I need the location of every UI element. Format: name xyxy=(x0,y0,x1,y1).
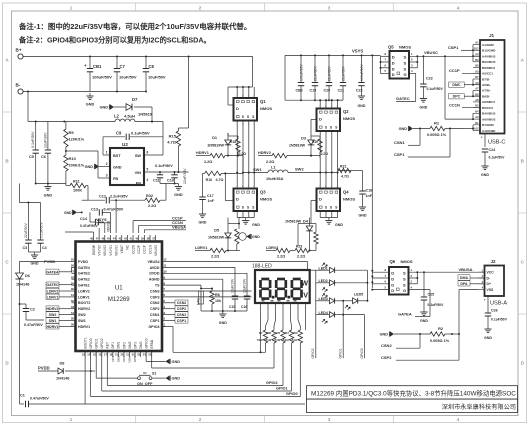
svg-text:-: - xyxy=(282,306,283,309)
net labels dp dm rotated xyxy=(111,356,137,363)
svg-text:1nF: 1nF xyxy=(366,194,373,198)
svg-text:0.1uF/50V: 0.1uF/50V xyxy=(428,303,445,307)
svg-text:10: 10 xyxy=(164,270,168,274)
svg-text:D: D xyxy=(319,197,322,202)
svg-text:2.2Ω: 2.2Ω xyxy=(321,152,329,156)
op-amp U2 regulator xyxy=(106,142,149,185)
svg-text:DP1: DP1 xyxy=(111,342,115,349)
svg-text:2.2uF/35V: 2.2uF/35V xyxy=(110,195,128,199)
svg-text:B9/VBUS: B9/VBUS xyxy=(482,60,495,64)
svg-text:DP2: DP2 xyxy=(111,356,115,362)
svg-text:B-: B- xyxy=(16,83,21,88)
net label CSN3 xyxy=(166,290,252,292)
net label LDRV2 xyxy=(46,288,72,293)
svg-text:26: 26 xyxy=(71,264,75,268)
net label CSN2 j2 xyxy=(381,334,420,348)
wire led bus left gpio2 stub xyxy=(311,270,316,358)
svg-text:R9: R9 xyxy=(69,130,75,135)
switch S1 xyxy=(96,351,165,386)
svg-text:1: 1 xyxy=(106,151,108,155)
capacitor C9 xyxy=(103,131,163,141)
wire led right bus xyxy=(366,270,368,301)
net label CSN2 u1 xyxy=(166,300,188,305)
svg-text:A7/D+: A7/D+ xyxy=(482,89,491,93)
ground under C18 xyxy=(359,204,367,218)
net label CSP3 xyxy=(166,296,252,298)
gnd arrow R1 xyxy=(399,126,413,131)
svg-text:USB-A: USB-A xyxy=(490,301,507,307)
gnd arrow s1 xyxy=(166,376,181,381)
svg-text:B12: B12 xyxy=(474,47,479,50)
resistor R6 xyxy=(265,310,276,347)
svg-text:VBUSC: VBUSC xyxy=(424,50,438,55)
svg-text:2.2Ω: 2.2Ω xyxy=(266,160,274,164)
svg-text:TS: TS xyxy=(155,284,160,288)
svg-text:SW1: SW1 xyxy=(49,319,57,323)
capacitor C2 xyxy=(20,304,45,327)
svg-text:S: S xyxy=(403,282,406,287)
U2 pin2 ground arrow xyxy=(85,164,110,169)
svg-text:BST: BST xyxy=(113,154,121,158)
net label DMA xyxy=(458,275,485,280)
resistor R15 xyxy=(167,128,180,172)
svg-text:GND: GND xyxy=(252,235,260,239)
svg-text:CB1: CB1 xyxy=(93,64,102,69)
led LED5 xyxy=(343,293,368,310)
resistor R2 xyxy=(430,326,459,343)
wire Q2 gate stub xyxy=(311,119,317,121)
svg-text:GND: GND xyxy=(31,262,39,266)
svg-text:DPA: DPA xyxy=(460,282,468,286)
svg-text:D6: D6 xyxy=(25,274,30,278)
svg-text:DP2: DP2 xyxy=(122,342,126,349)
svg-text:W: W xyxy=(301,281,308,288)
svg-text:D: D xyxy=(236,106,239,111)
svg-text:GND: GND xyxy=(419,106,427,110)
wire U1 top vsys2 xyxy=(98,228,100,235)
wire DVDD xyxy=(166,273,247,294)
svg-text:A12/GND: A12/GND xyxy=(482,129,496,133)
svg-text:L1: L1 xyxy=(271,166,275,170)
svg-text:LDRV1: LDRV1 xyxy=(47,295,59,299)
capacitor C5 xyxy=(29,122,39,184)
svg-text:C18: C18 xyxy=(366,189,373,193)
svg-text:3: 3 xyxy=(328,417,331,422)
svg-text:0.1uF/50V: 0.1uF/50V xyxy=(155,164,173,168)
svg-text:AVDD: AVDD xyxy=(150,266,160,270)
wire Q3 bottom pins xyxy=(237,211,254,218)
svg-text:USB-C: USB-C xyxy=(488,140,505,146)
svg-text:VCC: VCC xyxy=(487,271,495,275)
svg-text:GATE4: GATE4 xyxy=(78,266,90,270)
net label CSP1 u1 xyxy=(166,318,188,323)
capacitor C23 xyxy=(420,56,443,95)
svg-text:10k: 10k xyxy=(215,299,221,303)
capacitor C17 left xyxy=(199,173,214,211)
svg-text:22uF/35V: 22uF/35V xyxy=(183,168,187,184)
resistor R5 xyxy=(274,310,285,347)
svg-text:22uF/30V: 22uF/30V xyxy=(43,132,47,148)
svg-text:C3: C3 xyxy=(23,246,28,250)
svg-text:D7: D7 xyxy=(132,97,138,102)
diode D5 xyxy=(208,218,231,252)
svg-text:HDRV1: HDRV1 xyxy=(46,325,58,329)
wire cap rail to Q2 xyxy=(338,99,343,101)
svg-text:D: D xyxy=(391,277,394,282)
svg-text:B12/GND: B12/GND xyxy=(482,49,496,53)
transistor Q6 xyxy=(389,259,413,295)
wire led3 row xyxy=(337,300,344,302)
net label CSP1 top xyxy=(448,45,474,62)
net label VBUS3 rotated xyxy=(106,221,110,232)
svg-text:R20: R20 xyxy=(312,140,318,144)
svg-text:VBUS1: VBUS1 xyxy=(114,245,118,256)
resistor R19 HDRV2 xyxy=(258,151,320,164)
resistor R22 LDRV2 xyxy=(266,246,295,259)
svg-text:J2: J2 xyxy=(491,259,497,264)
resistor R23 xyxy=(295,224,318,259)
svg-text:C6: C6 xyxy=(41,155,46,159)
svg-text:GND: GND xyxy=(481,173,489,177)
net label HDRV1 xyxy=(46,324,72,329)
svg-text:GATEC: GATEC xyxy=(46,283,59,287)
diode D4 lower xyxy=(285,218,313,252)
svg-text:NMOS: NMOS xyxy=(343,197,355,202)
wire B+ drop to Q1 xyxy=(228,57,253,88)
net label GPIO1 text xyxy=(276,387,288,391)
svg-text:2: 2 xyxy=(106,162,108,166)
wire led34 bus gpio1 stub xyxy=(339,301,344,359)
wire cap gnd rail xyxy=(160,183,178,185)
svg-text:Q6: Q6 xyxy=(390,259,396,264)
resistor R4 xyxy=(283,310,294,347)
svg-text:BOOT1: BOOT1 xyxy=(83,337,87,348)
svg-text:1: 1 xyxy=(70,5,73,10)
wire B- rail xyxy=(23,91,147,93)
svg-text:5: 5 xyxy=(147,168,149,172)
svg-text:DM2: DM2 xyxy=(116,356,120,362)
svg-text:28: 28 xyxy=(71,275,75,279)
svg-text:B6/D-: B6/D- xyxy=(482,94,490,98)
wire TS xyxy=(166,285,201,288)
svg-text:DP3: DP3 xyxy=(133,342,137,349)
wire gpio4 run xyxy=(162,326,266,352)
svg-text:CSP1: CSP1 xyxy=(150,319,159,323)
led LED4 xyxy=(316,311,337,324)
connector J1 USB-C xyxy=(473,33,505,134)
wire Q6 left pins xyxy=(371,268,389,291)
svg-text:B5/CC2: B5/CC2 xyxy=(482,106,493,110)
svg-text:B7/D-: B7/D- xyxy=(482,77,490,81)
capacitor C1 xyxy=(20,394,50,408)
svg-text:3: 3 xyxy=(328,5,331,10)
net label CSN1 xyxy=(394,129,420,146)
svg-text:D: D xyxy=(236,197,239,202)
wire VBAT rail y121 xyxy=(28,121,163,123)
svg-text:C15: C15 xyxy=(229,305,235,309)
resistor R17 LDRV1 xyxy=(195,246,240,259)
wire VIN xyxy=(144,164,189,173)
svg-text:S: S xyxy=(404,66,407,71)
ground under C6 xyxy=(44,184,53,198)
svg-text:J1: J1 xyxy=(489,33,495,38)
svg-text:PVDD: PVDD xyxy=(78,260,88,264)
svg-text:C12: C12 xyxy=(99,195,106,199)
capacitor C15 xyxy=(229,278,238,311)
ground under Q3 xyxy=(242,218,260,228)
svg-text:D: D xyxy=(392,61,395,66)
wire gpio1 long xyxy=(102,346,292,391)
wire Q1 bottom pins to SW1 xyxy=(236,121,255,173)
svg-text:GPIO1: GPIO1 xyxy=(276,387,288,391)
diode D7 xyxy=(100,97,153,123)
svg-text:VSS: VSS xyxy=(487,288,495,292)
svg-text:51Ω: 51Ω xyxy=(265,338,271,342)
wire cap bank bottom rail xyxy=(285,55,343,101)
svg-text:CSN2: CSN2 xyxy=(381,343,392,348)
svg-text:D: D xyxy=(392,72,395,77)
svg-text:120K/1%: 120K/1% xyxy=(69,138,85,142)
svg-text:1N5819W: 1N5819W xyxy=(208,236,225,240)
svg-text:GND: GND xyxy=(113,166,122,170)
svg-text:2.2Ω: 2.2Ω xyxy=(297,255,305,259)
svg-text:A6/D+: A6/D+ xyxy=(482,83,491,87)
led LED1 xyxy=(316,263,337,273)
svg-text:R23: R23 xyxy=(296,245,302,249)
svg-text:GND: GND xyxy=(86,103,95,107)
resistor R21 xyxy=(338,165,363,179)
svg-text:2: 2 xyxy=(199,5,202,10)
wire r6 run xyxy=(152,346,274,368)
wire gpio0 long xyxy=(91,346,301,397)
svg-text:HDRV2: HDRV2 xyxy=(78,307,90,311)
svg-text:1N5819: 1N5819 xyxy=(138,112,153,117)
svg-text:CSP3: CSP3 xyxy=(150,295,159,299)
resistor R20 xyxy=(311,136,328,158)
wire gpio2 long xyxy=(107,346,283,386)
svg-text:GND: GND xyxy=(64,211,72,215)
svg-text:CSP2: CSP2 xyxy=(177,307,186,311)
svg-text:51Ω: 51Ω xyxy=(292,338,298,342)
svg-text:-: - xyxy=(260,306,261,309)
svg-text:R32: R32 xyxy=(146,194,153,198)
svg-text:GND: GND xyxy=(100,106,109,110)
svg-text:C11: C11 xyxy=(153,179,160,183)
svg-text:备注-2：GPIO4和GPIO3分别可以复用为I2C的SCL: 备注-2：GPIO4和GPIO3分别可以复用为I2C的SCL和SDA。 xyxy=(18,36,211,45)
ground under C3 C4 xyxy=(28,252,40,266)
svg-text:NMOS: NMOS xyxy=(260,106,272,111)
wire key gnd row xyxy=(146,351,165,361)
wire Q6 gate xyxy=(409,290,431,317)
gnd arrow R2 xyxy=(380,331,430,336)
svg-text:C13: C13 xyxy=(91,208,98,212)
svg-text:DPA: DPA xyxy=(122,356,126,362)
svg-text:CSP2: CSP2 xyxy=(381,355,392,360)
svg-text:51Ω: 51Ω xyxy=(257,338,263,342)
svg-text:10uH/36A: 10uH/36A xyxy=(266,177,284,181)
title block xyxy=(307,386,518,413)
capacitor CB2 xyxy=(296,55,305,100)
net label GPIO2 text xyxy=(266,381,278,385)
wire AGND xyxy=(166,279,223,288)
svg-text:NC: NC xyxy=(126,244,130,249)
svg-text:C24: C24 xyxy=(489,148,496,152)
svg-text:GND: GND xyxy=(484,336,492,340)
svg-text:D3: D3 xyxy=(301,137,306,141)
svg-text:NMOS: NMOS xyxy=(401,259,413,264)
svg-text:VBUS2: VBUS2 xyxy=(103,245,107,256)
svg-text:CSN1: CSN1 xyxy=(177,313,187,317)
svg-text:EPAD: EPAD xyxy=(150,339,154,348)
wire c3c4 top xyxy=(20,184,41,204)
svg-text:D+: D+ xyxy=(487,282,491,286)
ground under C23 xyxy=(419,96,427,110)
svg-text:A1/GND: A1/GND xyxy=(482,43,494,47)
svg-text:4: 4 xyxy=(457,5,460,10)
resistor R18b with bjt circle xyxy=(228,218,260,251)
svg-text:G: G xyxy=(403,288,406,293)
thermistor NTC xyxy=(196,291,203,311)
svg-text:C2: C2 xyxy=(30,308,35,312)
ground under CB1 xyxy=(86,93,95,107)
svg-text:DM3: DM3 xyxy=(139,341,143,348)
wire J2 bottom stub xyxy=(484,296,488,306)
svg-text:0.1uF/50V: 0.1uF/50V xyxy=(131,131,150,136)
svg-text:深圳市永阜康科技有限公司: 深圳市永阜康科技有限公司 xyxy=(442,403,516,411)
svg-text:-: - xyxy=(267,306,268,309)
display 188-LED label xyxy=(252,264,272,270)
svg-text:GPIO2: GPIO2 xyxy=(311,348,315,358)
led LED3 xyxy=(316,294,337,304)
svg-text:KEY: KEY xyxy=(106,341,110,348)
svg-text:VIN: VIN xyxy=(135,171,142,175)
svg-text:R11: R11 xyxy=(73,180,80,184)
svg-text:GND: GND xyxy=(380,333,389,337)
capacitor C16 xyxy=(241,278,250,311)
svg-text:GATE3: GATE3 xyxy=(78,272,90,276)
ground under C10 xyxy=(174,184,183,198)
ground under Q4 xyxy=(325,218,343,228)
net label DMC xyxy=(449,79,480,87)
svg-text:D: D xyxy=(391,282,394,287)
svg-text:SW1: SW1 xyxy=(253,167,262,172)
svg-text:C5: C5 xyxy=(29,155,34,159)
gnd arrow key xyxy=(166,359,181,364)
svg-text:GND: GND xyxy=(359,214,367,218)
svg-text:SW1: SW1 xyxy=(78,319,86,323)
note line 2 xyxy=(18,36,211,45)
svg-text:U1: U1 xyxy=(115,286,123,292)
wire vbus3 branch down xyxy=(115,200,117,233)
svg-text:VBUS4: VBUS4 xyxy=(148,260,160,264)
wire VBUSC branch to VBUS pins xyxy=(445,56,474,120)
svg-text:1: 1 xyxy=(70,417,73,422)
wire Q2 top pins xyxy=(319,99,339,108)
terminal B- xyxy=(16,83,24,95)
resistor R10 xyxy=(64,147,85,171)
wire disp stub7 xyxy=(305,310,307,331)
svg-text:SW2: SW2 xyxy=(78,313,86,317)
net label VBUSC xyxy=(422,50,479,57)
net label VSYS xyxy=(352,49,363,54)
svg-text:GND: GND xyxy=(199,221,207,225)
diode D1 xyxy=(207,133,231,157)
capacitor C21 xyxy=(338,55,347,100)
svg-text:GND: GND xyxy=(219,321,227,325)
capacitor C25 xyxy=(421,271,444,309)
svg-text:NMOS: NMOS xyxy=(399,45,411,50)
svg-text:R6: R6 xyxy=(267,331,271,335)
svg-text:-: - xyxy=(275,306,276,309)
svg-text:D1: D1 xyxy=(212,136,217,140)
svg-text:0.1uF/50V: 0.1uF/50V xyxy=(427,87,444,91)
svg-text:22uF/35V: 22uF/35V xyxy=(314,66,318,81)
svg-text:CSN3: CSN3 xyxy=(150,289,160,293)
svg-text:SW2: SW2 xyxy=(49,313,57,317)
transistor Q5 xyxy=(388,45,411,79)
net label LDRV1 xyxy=(46,294,72,299)
net label PVDD at U1 xyxy=(44,259,72,264)
capacitor C4 xyxy=(37,203,46,253)
capacitor C19 xyxy=(310,55,319,100)
net label DPA xyxy=(458,281,485,286)
svg-text:CC1N: CC1N xyxy=(148,244,152,254)
svg-text:GND: GND xyxy=(85,165,94,169)
wire Q1 top pins xyxy=(236,86,255,98)
svg-text:51Ω: 51Ω xyxy=(283,338,289,342)
resistor R18 xyxy=(228,133,246,156)
wire Q2 bottom pins to SW2 xyxy=(320,131,337,173)
svg-text:S: S xyxy=(403,277,406,282)
svg-text:GND: GND xyxy=(420,319,428,323)
inductor L2 xyxy=(114,114,135,122)
svg-text:R15: R15 xyxy=(169,134,177,139)
svg-text:1N4148: 1N4148 xyxy=(56,377,69,381)
net label SW1 and inductor L1 xyxy=(236,166,338,182)
svg-text:D-: D- xyxy=(487,276,491,280)
wire J1 bottom stub xyxy=(481,134,485,148)
svg-text:GND: GND xyxy=(44,194,53,198)
capacitor C20 xyxy=(324,55,333,100)
svg-text:188-LED: 188-LED xyxy=(252,264,272,270)
capacitor C26 xyxy=(485,306,508,326)
svg-text:CSN1: CSN1 xyxy=(150,313,160,317)
svg-text:22uF/35V: 22uF/35V xyxy=(328,66,332,81)
svg-text:4: 4 xyxy=(147,178,149,182)
svg-text:100uF/50V: 100uF/50V xyxy=(360,64,364,81)
svg-text:A5/CC1: A5/CC1 xyxy=(482,72,493,76)
svg-text:1N5819W: 1N5819W xyxy=(285,219,302,223)
svg-text:HDRV2: HDRV2 xyxy=(258,151,271,155)
svg-text:S: S xyxy=(404,55,407,60)
svg-text:DMA: DMA xyxy=(128,356,132,362)
wire Q6 right pins merge xyxy=(409,268,485,289)
capacitor C24 xyxy=(482,148,505,163)
net label GATEA xyxy=(46,267,72,274)
svg-text:GND: GND xyxy=(172,360,181,364)
svg-text:R4: R4 xyxy=(285,331,289,335)
svg-text:GATE2: GATE2 xyxy=(78,278,90,282)
wire disp stub1 xyxy=(260,310,262,354)
svg-text:C10: C10 xyxy=(167,179,174,183)
wire B- to rail xyxy=(27,92,29,122)
svg-text:4.7Ω: 4.7Ω xyxy=(341,175,349,179)
ground under ntc bus xyxy=(219,311,227,325)
svg-text:C4: C4 xyxy=(42,246,47,250)
wire bottom C1 row xyxy=(30,351,305,404)
diode D3 xyxy=(289,120,314,157)
svg-text:DMA: DMA xyxy=(460,276,469,280)
